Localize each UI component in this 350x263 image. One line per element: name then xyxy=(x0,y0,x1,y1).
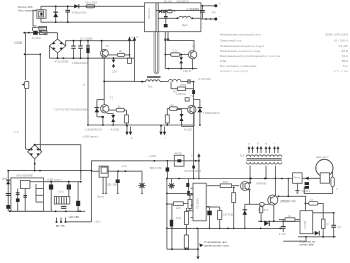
+rail xyxy=(9,170,92,172)
svg-text:1К02: 1К02 xyxy=(180,83,187,87)
capacitor C2 xyxy=(71,40,75,59)
Tp1 core xyxy=(147,76,161,78)
T2 collector vertical xyxy=(193,106,195,127)
SEC8: PWM IC xyxy=(166,178,282,260)
resistor R7 xyxy=(164,49,188,57)
diode to rail xyxy=(243,204,248,229)
net arrows v xyxy=(125,125,132,140)
wire to control box xyxy=(84,211,86,213)
caps C12 C13 row xyxy=(44,181,82,212)
svg-text:1К0: 1К0 xyxy=(223,180,228,184)
wire to + terminal xyxy=(201,5,215,7)
svg-text:г: г xyxy=(274,142,275,146)
svg-text:1,5КЕ440СА: 1,5КЕ440СА xyxy=(85,128,102,132)
svg-text:Д1-Д4: Д1-Д4 xyxy=(164,0,173,3)
svg-text:+15В (вент.): +15В (вент.) xyxy=(82,135,99,139)
source to base wire xyxy=(245,203,260,205)
svg-text:превышении тока: превышении тока xyxy=(204,243,229,247)
small box near T2 xyxy=(185,98,189,101)
wire negative rail xyxy=(49,57,134,59)
cap below xyxy=(61,206,66,208)
plug connector X1 xyxy=(37,10,46,19)
R vertical xyxy=(206,207,233,229)
choke Dr1 xyxy=(179,16,201,27)
svg-text:22н: 22н xyxy=(112,69,117,73)
t net arrow xyxy=(192,153,201,179)
diode VD2 on top wire xyxy=(74,4,79,8)
cap out xyxy=(331,213,341,237)
bridge rectifier VD7 xyxy=(25,145,41,159)
lower rail inside box xyxy=(158,17,178,19)
wire xyxy=(41,18,145,22)
wire lower xyxy=(165,68,197,70)
svg-text:0,5 - 4 мм: 0,5 - 4 мм xyxy=(334,69,348,73)
svg-text:−: − xyxy=(219,15,221,19)
diode VD6 xyxy=(194,99,220,126)
R timing 2 below rail xyxy=(184,228,188,249)
svg-text:Вкл: Вкл xyxy=(40,27,45,31)
svg-text:обмотка II: обмотка II xyxy=(148,8,151,19)
capacitor Cs xyxy=(163,10,167,13)
svg-text:Напряжение питающей сети: Напряжение питающей сети xyxy=(220,33,261,37)
thermal contact xyxy=(331,172,339,194)
capacitor C1 2200uF xyxy=(65,5,87,23)
wire xyxy=(66,41,135,46)
MOSFET source xyxy=(248,189,250,205)
svg-text:Т1: Т1 xyxy=(109,96,113,100)
long vertical to control xyxy=(193,82,195,90)
Tp2 winding bottom xyxy=(246,162,281,164)
right side wires xyxy=(313,212,334,214)
sense wire down xyxy=(197,228,200,259)
svg-text:З,З: З,З xyxy=(264,208,269,212)
svg-text:+15v: +15v xyxy=(94,219,101,223)
output block box xyxy=(145,3,201,32)
T5 emitter xyxy=(273,205,275,221)
svg-text:б: б xyxy=(257,142,259,146)
svg-text:10ПОВ: 10ПОВ xyxy=(223,213,233,217)
switch bypass Вкл1 xyxy=(33,28,47,32)
blobs xyxy=(305,182,309,185)
svg-text:КР142ЕН8Б: КР142ЕН8Б xyxy=(16,173,33,177)
blob NO-156 xyxy=(69,182,81,219)
svg-text:Тр3: Тр3 xyxy=(176,216,181,220)
svg-text:НО-156: НО-156 xyxy=(69,215,80,219)
R 12K horizontal xyxy=(167,202,188,210)
SEC4: driver stage xyxy=(54,57,220,140)
LED HL2 star xyxy=(168,179,175,190)
svg-text:5Вт0-7Вт: 5Вт0-7Вт xyxy=(150,166,163,170)
svg-text:85%: 85% xyxy=(342,59,348,63)
LED HL1 star xyxy=(138,171,146,193)
svg-text:Максимальный потребляемый от с: Максимальный потребляемый от сети ток xyxy=(220,54,281,58)
DA3 regulator box xyxy=(300,211,313,234)
wire left lead xyxy=(135,81,146,83)
SEC11: relay + thermal sensor xyxy=(270,155,339,194)
svg-text:4×220: 4×220 xyxy=(184,127,193,131)
svg-text:UС3845: UС3845 xyxy=(195,198,199,209)
bottom rail C xyxy=(298,236,336,238)
svg-text:(Г): (Г) xyxy=(338,225,342,229)
diode D1 xyxy=(159,10,162,13)
net arrow b xyxy=(133,35,138,58)
R vertical right xyxy=(321,219,329,237)
resistor R5 horizontal xyxy=(109,104,127,112)
capacitor C4 below xyxy=(112,57,118,73)
resistor R9 vertical xyxy=(165,109,169,126)
SEC3: primary side mid xyxy=(135,32,212,161)
capacitor C8 inline xyxy=(188,79,195,83)
svg-text:4×220: 4×220 xyxy=(111,128,120,132)
transistor T1 xyxy=(101,96,114,113)
svg-text:+15В: +15В xyxy=(149,154,156,158)
wire xyxy=(24,33,26,55)
fuse Пр1 xyxy=(86,0,98,7)
svg-text:10 - 160 А: 10 - 160 А xyxy=(334,38,349,42)
bridge rectifier VD3 xyxy=(49,39,65,53)
cap C11 inside xyxy=(16,189,20,212)
diode DA3 xyxy=(313,231,320,236)
svg-text:0,1×63: 0,1×63 xyxy=(190,7,200,11)
svg-text:г: г xyxy=(165,136,166,140)
feedback vertical xyxy=(166,178,193,250)
SEC10: spec table xyxy=(220,33,349,73)
diode VD1 xyxy=(53,5,58,23)
svg-text:160 В: 160 В xyxy=(183,69,191,73)
varistor RU1 xyxy=(86,40,90,59)
cap dark near IC xyxy=(206,207,212,230)
svg-text:схеме айв: схеме айв xyxy=(299,242,314,246)
KREN regulator DA1 xyxy=(11,173,44,211)
svg-text:12К: 12К xyxy=(176,206,181,210)
plus rail inside box xyxy=(156,10,201,12)
wire to - terminal xyxy=(201,18,215,20)
control box left edge xyxy=(67,161,92,222)
svg-text:0,1 630В: 0,1 630В xyxy=(81,36,93,40)
diode VD5 xyxy=(95,100,104,125)
svg-text:1,5КЕ440СА: 1,5КЕ440СА xyxy=(203,111,220,115)
IC pins left xyxy=(186,188,193,217)
svg-text:2200µ×25v: 2200µ×25v xyxy=(72,11,87,15)
SEC2: output rectifier box xyxy=(145,0,222,32)
svg-text:Вес аппарата с кабелями: Вес аппарата с кабелями xyxy=(220,64,257,68)
wire T4 base xyxy=(108,54,117,56)
+15V top rail xyxy=(91,160,198,162)
ground rail xyxy=(9,210,85,212)
transformer Tp1 primary hairpin xyxy=(154,32,159,74)
SEC9: right bottom regulator xyxy=(279,196,341,246)
svg-text:5 кг: 5 кг xyxy=(343,64,349,68)
capacitor C10 xyxy=(6,194,11,209)
svg-text:Диаметр электрода: Диаметр электрода xyxy=(220,69,248,73)
snubber resistor xyxy=(167,10,172,13)
wire from switch xyxy=(108,170,142,172)
wire xyxy=(25,53,41,55)
svg-text:Сварочный ток: Сварочный ток xyxy=(220,38,242,42)
wire xyxy=(41,6,145,9)
wire from rail xyxy=(270,178,293,180)
winding III xyxy=(168,80,181,82)
svg-text:+15: +15 xyxy=(121,164,126,168)
IC DA2 box xyxy=(193,183,206,221)
T4 emitter to T1 vertical xyxy=(101,57,103,59)
transistor T3 xyxy=(188,45,196,59)
net arrows g xyxy=(159,125,166,140)
output capacitor xyxy=(190,5,217,19)
svg-text:Тр1: Тр1 xyxy=(148,84,153,88)
vertical leads from box xyxy=(164,32,166,69)
svg-text:2,5 кВт: 2,5 кВт xyxy=(338,44,348,48)
svg-text:4,7М: 4,7М xyxy=(279,232,286,236)
svg-text:IRF840: IRF840 xyxy=(257,181,267,185)
bottom wire xyxy=(304,187,332,193)
wire to T3 collector xyxy=(168,41,194,50)
resistor R4 vertical xyxy=(128,58,132,64)
svg-text:СТАБ: СТАБ xyxy=(303,221,307,229)
current transformer Tp3 primary xyxy=(170,204,182,249)
wires between xyxy=(302,177,320,179)
diode Dzh1 xyxy=(2,170,10,212)
svg-text:1,5КЕ440СА: 1,5КЕ440СА xyxy=(72,61,89,65)
MOSFET VT1 xyxy=(241,181,267,190)
svg-text:Пр1 16А: Пр1 16А xyxy=(86,0,98,4)
sensor circle xyxy=(316,155,333,183)
SEC6: fan control xyxy=(67,151,271,223)
SEC1: mains input top-left xyxy=(13,0,145,73)
svg-text:Сп1: Сп1 xyxy=(58,189,64,193)
connector pins xyxy=(56,218,67,229)
fuse box on left line xyxy=(25,81,29,88)
+ terminal xyxy=(214,4,217,7)
svg-text:Датчик t°: Датчик t° xyxy=(316,155,329,159)
wire DA3 top xyxy=(304,196,306,210)
svg-text:Напряжение холостого хода: Напряжение холостого хода xyxy=(220,49,261,53)
double diode stack right xyxy=(176,110,194,132)
svg-text:470×250В: 470×250В xyxy=(55,60,69,64)
svg-text:4N35: 4N35 xyxy=(175,151,183,155)
svg-text:Тр2: Тр2 xyxy=(240,153,245,157)
- terminal xyxy=(214,18,217,21)
gate resistor xyxy=(207,180,239,188)
link text xyxy=(299,239,315,246)
diode on rail B left xyxy=(264,221,269,226)
resistor R6 vertical xyxy=(125,110,129,126)
svg-text:~220В: ~220В xyxy=(13,41,22,45)
dark blob on vertical xyxy=(192,90,195,94)
T3 emitter xyxy=(192,59,194,69)
svg-text:220В +10%-15%: 220В +10%-15% xyxy=(325,33,349,37)
wire down-left xyxy=(283,237,306,241)
bottom wire xyxy=(167,248,198,250)
capacitor C3 xyxy=(78,40,82,59)
svg-text:ИР7ГО-ВД: ИР7ГО-ВД xyxy=(281,199,296,203)
svg-text:7,5: 7,5 xyxy=(173,49,178,53)
svg-text:+15В (упр.): +15В (упр.) xyxy=(46,178,62,182)
svg-text:КД2997А: КД2997А xyxy=(177,0,189,3)
base resistor to rail xyxy=(259,206,268,221)
top R chain xyxy=(305,198,323,220)
svg-text:Реле: Реле xyxy=(294,176,301,180)
Tp2 bottom leads xyxy=(249,166,251,183)
resistor to rail xyxy=(232,187,236,230)
svg-text:Т1-Т4 КТ8170А1/BU508А: Т1-Т4 КТ8170А1/BU508А xyxy=(54,108,89,112)
wire xyxy=(57,53,59,58)
R timing 1 xyxy=(184,208,188,229)
svg-text:Т-2: Т-2 xyxy=(14,130,19,134)
wire bridge top to vent rail xyxy=(35,144,81,146)
wire diode branch xyxy=(97,99,104,101)
svg-text:+: + xyxy=(219,2,221,6)
net arrow a xyxy=(128,35,133,58)
capacitor C5 inside xyxy=(164,10,168,24)
electrolytic C6 xyxy=(164,24,168,27)
svg-text:б: б xyxy=(136,35,138,39)
right stage resistor R8 xyxy=(167,103,187,111)
polarized cap C9 xyxy=(179,54,183,69)
wire xyxy=(48,46,50,58)
SEC5: aux supply bottom-left xyxy=(2,54,99,228)
switch row: wire xyxy=(24,32,57,34)
svg-text:КР142ЕН9А: КР142ЕН9А xyxy=(185,169,202,173)
svg-text:1µ/-: 1µ/- xyxy=(211,10,216,14)
ground rail A xyxy=(167,227,282,229)
svg-text:82 В: 82 В xyxy=(342,49,348,53)
switch Vkl2 xyxy=(91,166,108,199)
Tp2 winding top xyxy=(246,155,281,157)
svg-text:Вкл2: Вкл2 xyxy=(97,195,104,199)
bridge output down xyxy=(34,159,36,171)
bottom rail xyxy=(88,124,194,126)
transistor T4 xyxy=(101,40,110,57)
resistor blob R xyxy=(166,161,170,179)
cap C11b inside xyxy=(23,189,27,212)
svg-text:Номинальная мощность в дуге: Номинальная мощность в дуге xyxy=(220,44,265,48)
cap 4,7M xyxy=(279,221,286,236)
label overcurrent xyxy=(199,240,229,247)
zener VD8 xyxy=(106,171,120,193)
transistor T5 xyxy=(268,195,289,205)
svg-text:Т4: Т4 xyxy=(105,44,109,48)
return vertical xyxy=(84,58,89,126)
Tp2 core xyxy=(246,158,281,160)
svg-text:0,15×63v: 0,15×63v xyxy=(199,77,212,81)
transformer secondary leads xyxy=(155,3,157,32)
junction blobs under box xyxy=(164,39,166,41)
svg-text:МГ ТВ: МГ ТВ xyxy=(56,224,65,228)
svg-text:КД521: КД521 xyxy=(302,189,311,193)
resistor R parallel xyxy=(171,82,194,96)
Tp1 secondary winding xyxy=(146,80,160,82)
svg-text:Др1: Др1 xyxy=(182,23,188,27)
SEC7: Tp2 mosfet T5 xyxy=(240,142,306,230)
svg-text:Т3: Т3 xyxy=(192,45,196,49)
fan transformer box xyxy=(54,197,70,205)
feedback resistor xyxy=(279,214,300,222)
wire up right xyxy=(80,145,82,171)
collector junction wire xyxy=(278,178,307,198)
relay box xyxy=(293,173,303,184)
cap dark xyxy=(186,179,190,196)
ground symbol xyxy=(295,183,299,193)
optocoupler box xyxy=(174,151,184,166)
R timing 0 xyxy=(188,195,192,211)
Tp2 pin arrows xyxy=(248,142,280,153)
lower rail xyxy=(167,178,270,180)
AC feed wires down xyxy=(24,54,26,80)
transistor T2 xyxy=(188,94,196,114)
relay contact K1.1 xyxy=(39,31,47,35)
wire to Tp1 xyxy=(104,80,134,82)
svg-text:4×22Ω: 4×22Ω xyxy=(32,36,42,40)
thermistor R2 xyxy=(33,31,38,35)
base oval resistor xyxy=(258,203,270,212)
resistor R3 xyxy=(117,53,125,56)
double diode stack xyxy=(107,114,115,126)
svg-text:КПД: КПД xyxy=(220,59,227,63)
svg-text:19 А: 19 А xyxy=(342,54,349,58)
svg-text:Т2: Т2 xyxy=(190,94,194,98)
wire xyxy=(33,10,37,26)
svg-text:12В 1Вт: 12В 1Вт xyxy=(106,182,118,186)
svg-text:НО: НО xyxy=(173,90,178,94)
T2 string to lower rail xyxy=(192,161,195,180)
rail B xyxy=(258,220,300,222)
